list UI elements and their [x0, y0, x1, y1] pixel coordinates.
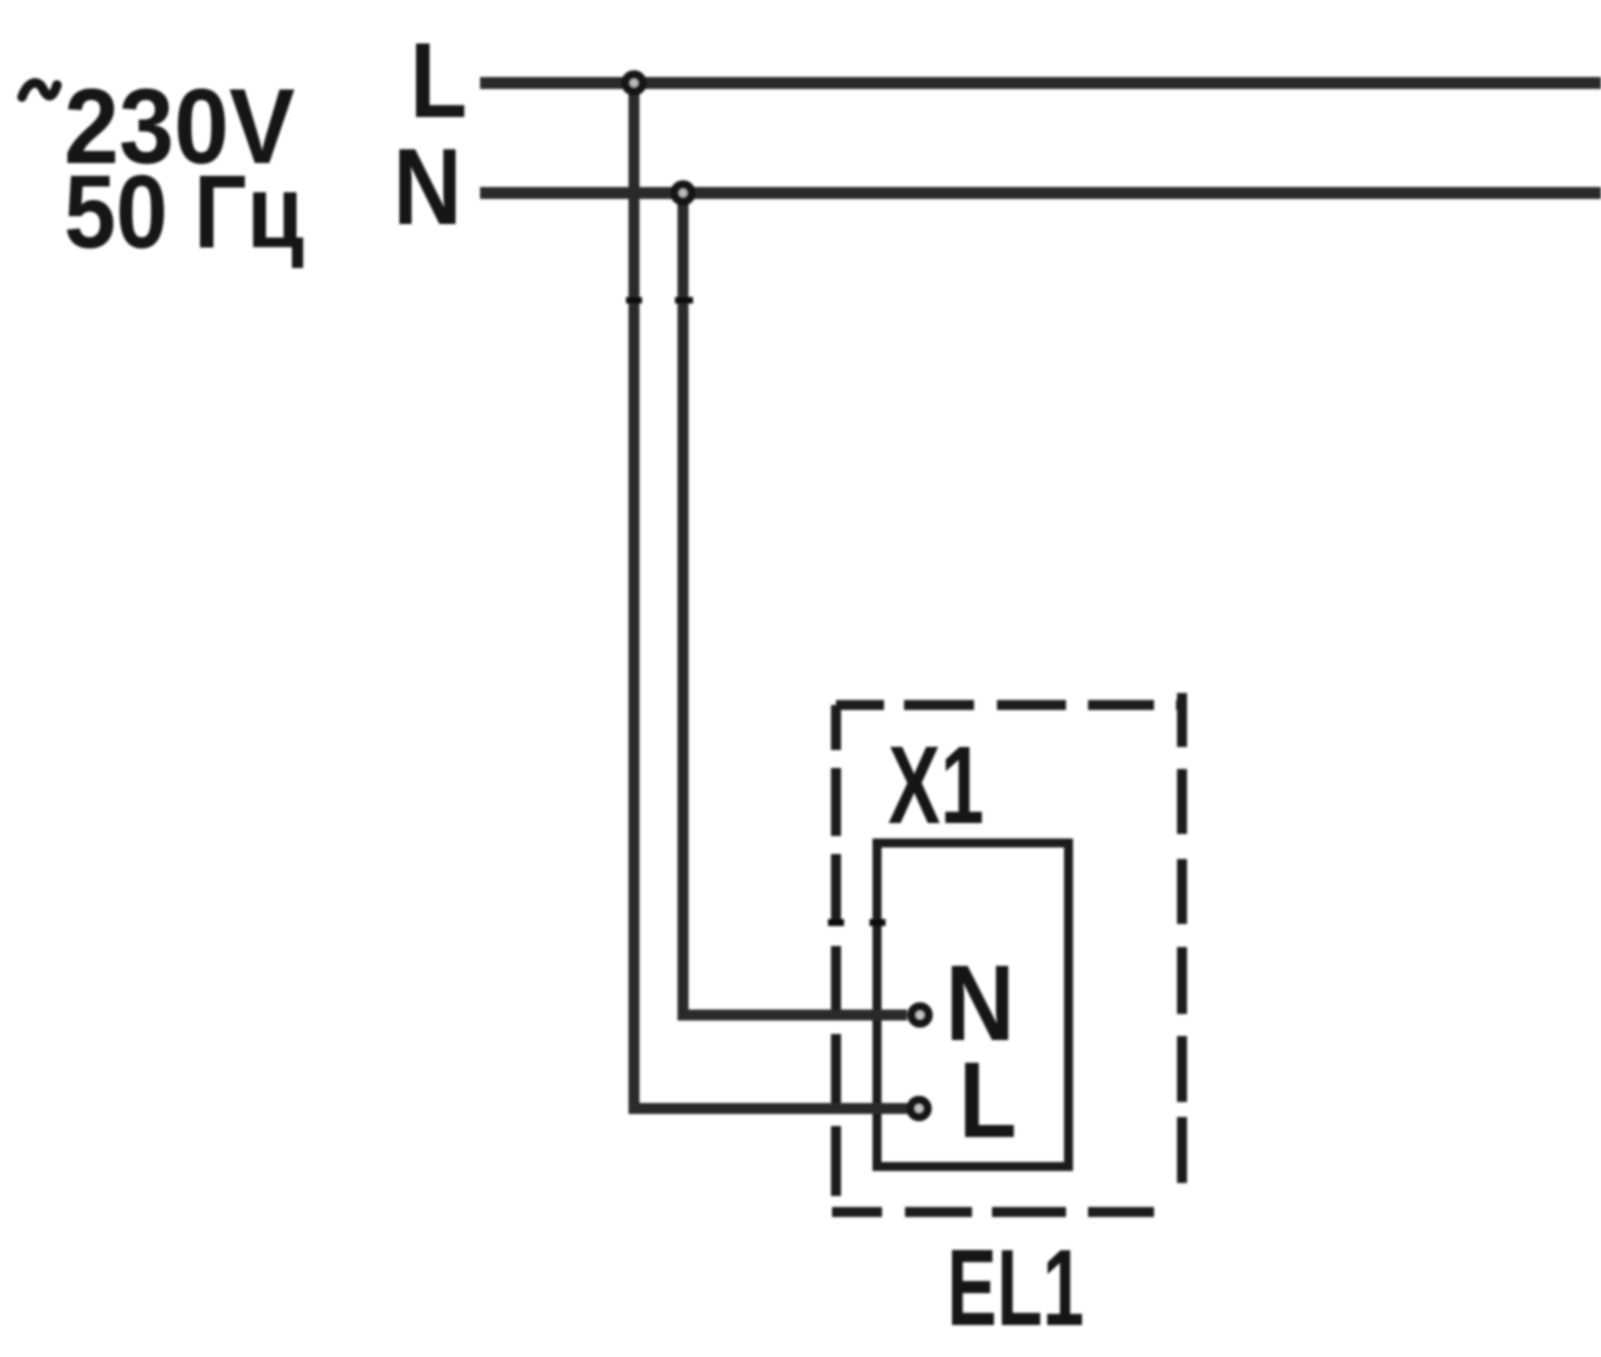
- luminaire EL1 dashed enclosure : right edge: [1177, 693, 1187, 1191]
- svg-text:L: L: [410, 20, 467, 140]
- svg-text:50 Гц: 50 Гц: [64, 155, 304, 270]
- luminaire EL1 dashed enclosure : top edge: [836, 700, 1182, 710]
- conductor tick on wire L drop: [626, 297, 642, 304]
- tick on terminal block left edge: [870, 919, 886, 926]
- junction node on N bus: [675, 185, 692, 202]
- junction node on L bus: [626, 75, 643, 92]
- terminal N ring: [912, 1007, 929, 1024]
- luminaire EL1 dashed enclosure : left edge: [831, 705, 841, 1212]
- conductor tick on wire N drop: [675, 297, 693, 304]
- wire N drop (from N bus to terminal N): [683, 193, 907, 1015]
- luminaire EL1 dashed enclosure : bottom edge: [832, 1207, 1156, 1217]
- label ~ (AC sign): [22, 83, 57, 97]
- terminal block X1 outline: [877, 843, 1069, 1167]
- wire L bus: [480, 77, 1601, 89]
- terminal L ring: [911, 1100, 928, 1117]
- svg-text:N: N: [393, 126, 462, 248]
- wire L drop (from L bus to terminal L): [634, 83, 907, 1109]
- wire N bus: [480, 187, 1601, 199]
- svg-text:EL1: EL1: [947, 1227, 1084, 1349]
- tick on enclosure left dashed edge: [828, 919, 844, 926]
- svg-text:L: L: [959, 1039, 1017, 1160]
- svg-text:X1: X1: [888, 724, 984, 847]
